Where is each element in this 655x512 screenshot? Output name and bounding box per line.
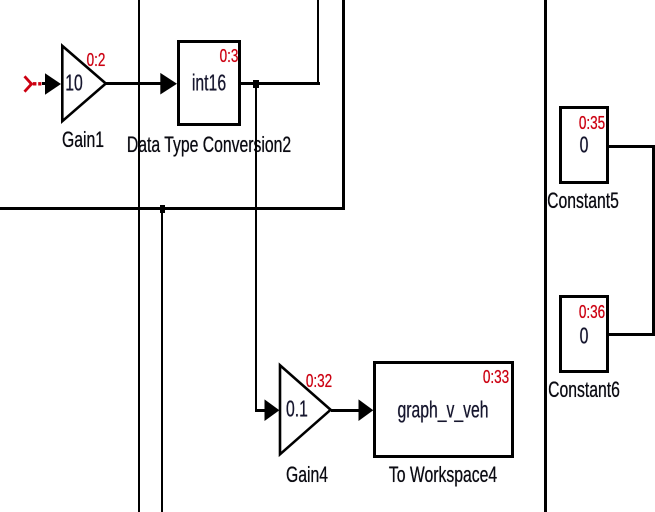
value label graph_v_veh [397, 398, 488, 421]
sample time annotation 0:33 [483, 368, 509, 386]
label To Workspace4 [389, 464, 497, 486]
block Data Type Conversion2 [177, 40, 241, 126]
wire: Gain4 output to To Workspace4 with arrowhead [331, 409, 360, 412]
wire: vertical drop from bus junction to bottom [161, 209, 163, 512]
label Constant6 [548, 379, 620, 401]
label Gain4 [286, 464, 328, 486]
block Constant5 [559, 106, 609, 184]
sample time annotation 0:3 [219, 47, 238, 65]
value label 0 of Constant5 [580, 133, 589, 156]
wire: vertical connector along right edge [652, 145, 655, 337]
node: junction on bus line [160, 205, 166, 213]
value label 0.1 of Gain4 [286, 398, 308, 421]
wire: input stub into Gain1 with arrowhead [42, 82, 47, 85]
wire: right boundary vertical line [544, 0, 547, 512]
label Gain1 [62, 129, 104, 151]
wire: Gain1 output to Data Type Conversion2 with arrowhead [105, 82, 162, 85]
wire: vertical drop from int16 junction down to Gain4 level [255, 83, 257, 411]
wire: int16 output horizontal [240, 82, 320, 85]
label Constant5 [547, 190, 619, 212]
wire: Constant6 output horizontal [608, 333, 655, 336]
sample time annotation 0:32 [306, 372, 332, 390]
sample time annotation 0:2 [87, 51, 106, 69]
sample time annotation 0:36 [579, 303, 605, 321]
sample time annotation 0:35 [579, 114, 605, 132]
wire: left boundary vertical line [138, 0, 141, 512]
wire: horizontal bus line y=208 [0, 207, 345, 210]
node: junction on int16 output [253, 80, 259, 88]
block To Workspace4 [373, 361, 514, 457]
wire: horizontal into Gain4 with arrowhead [255, 409, 267, 412]
value label 0 of Constant6 [580, 325, 589, 348]
value label int16 [192, 72, 226, 95]
label Data Type Conversion2 [127, 134, 291, 156]
value label 10 of Gain1 [65, 72, 83, 95]
block Constant6 [559, 295, 609, 373]
wire: top-right corner vertical (x=343) [342, 0, 345, 208]
wire: Constant5 output horizontal [608, 145, 655, 148]
wire: vertical up from int16 output corner to top edge [317, 0, 320, 85]
